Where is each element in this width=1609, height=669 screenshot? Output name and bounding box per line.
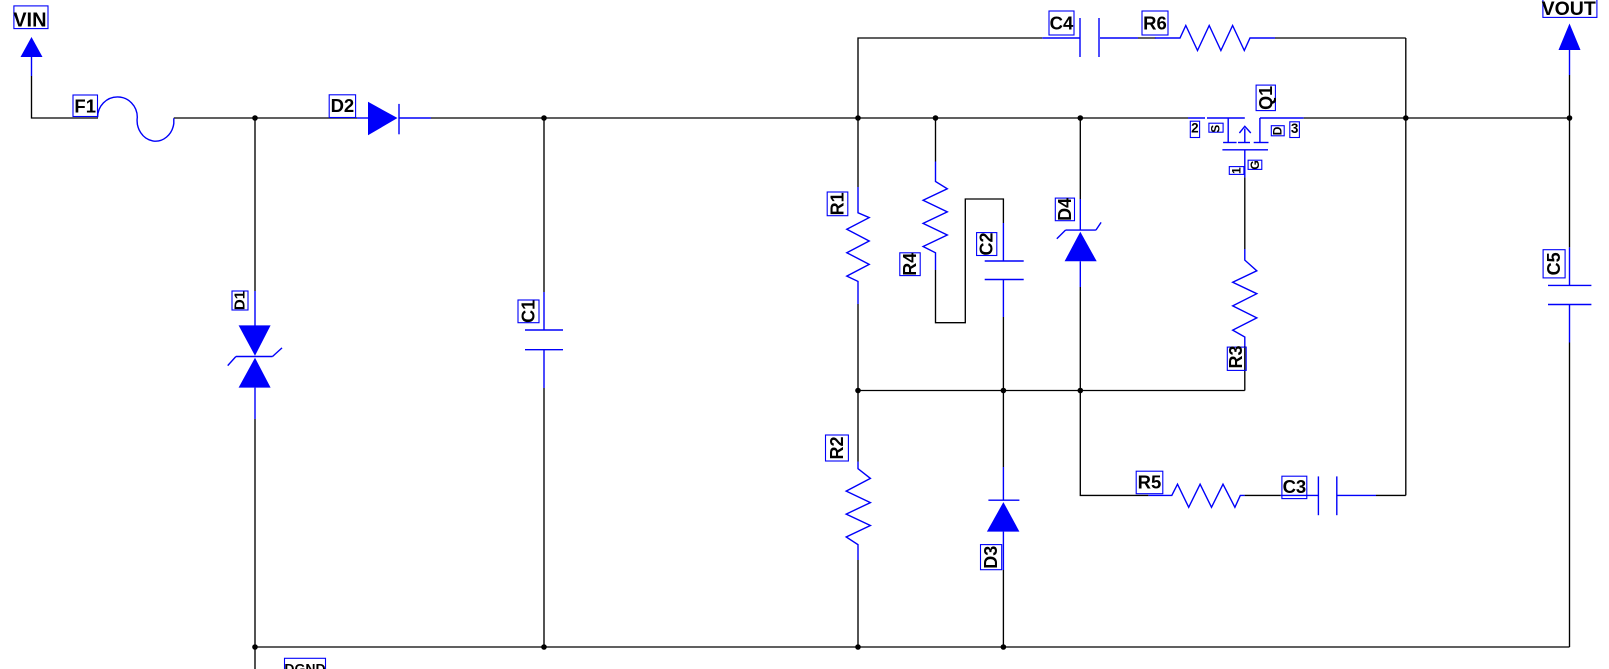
svg-text:D: D bbox=[1271, 126, 1285, 135]
junction node A top rail x255 bbox=[252, 115, 258, 121]
wire R4 route to C2 bbox=[936, 199, 1004, 323]
wire fuse to node A bbox=[174, 117, 255, 119]
junction bottom rail x255 bbox=[252, 644, 258, 650]
resistor R3 bbox=[1233, 249, 1257, 346]
capacitor C4 bbox=[1042, 18, 1138, 57]
wire node A to D2 anode bbox=[255, 117, 357, 119]
wire Q1 gate to R3 bbox=[1244, 177, 1246, 249]
svg-text:F1: F1 bbox=[74, 95, 96, 116]
fuse F1 bbox=[98, 97, 174, 141]
wire R5 to C3 bbox=[1245, 494, 1281, 496]
wire VOUT stub down through rail to C5 bbox=[1569, 75, 1571, 247]
capacitor C3 bbox=[1281, 476, 1376, 515]
svg-text:1: 1 bbox=[1230, 167, 1244, 174]
svg-text:C5: C5 bbox=[1544, 252, 1564, 275]
label R4 (rotated) bbox=[900, 253, 920, 276]
wire C4 to R6 bbox=[1138, 37, 1156, 39]
label F1 bbox=[73, 95, 98, 117]
label D1 (rotated) bbox=[232, 291, 249, 310]
wire top rail to D4 bbox=[1079, 118, 1081, 199]
pin number 3 (Q1 drain) bbox=[1290, 121, 1300, 138]
svg-text:D2: D2 bbox=[331, 95, 355, 116]
resistor R2 bbox=[846, 462, 870, 561]
power flag VIN arrow bbox=[21, 37, 43, 76]
zener diode D4 bbox=[1057, 199, 1101, 287]
junction mid rail x1080 bbox=[1078, 388, 1084, 394]
wire top rail up to C4 bbox=[858, 38, 1042, 118]
junction top rail x935 bbox=[933, 115, 939, 121]
wire R3 to mid rail bbox=[1244, 346, 1246, 391]
wire bottom rail bbox=[255, 646, 1570, 648]
junction top rail x1406 bbox=[1403, 115, 1409, 121]
capacitor C5 bbox=[1548, 247, 1591, 342]
junction bottom rail x858 bbox=[855, 644, 861, 650]
svg-text:D1: D1 bbox=[232, 291, 249, 310]
wire mid rail to D3 bbox=[1002, 391, 1004, 468]
junction mid rail x1003 bbox=[1001, 388, 1007, 394]
wire mid rail down and right to R5 bbox=[1080, 391, 1148, 496]
wire VIN stub to fuse bbox=[32, 76, 99, 118]
wire D1 to bottom rail bbox=[254, 419, 256, 647]
capacitor C2 bbox=[985, 223, 1024, 317]
svg-text:Q1: Q1 bbox=[1256, 86, 1276, 110]
pin name S (Q1, rotated) bbox=[1209, 123, 1223, 133]
label R6 bbox=[1142, 11, 1168, 35]
wire right vertical (C4/R6 to R5/C3 and rail) bbox=[1405, 38, 1407, 495]
svg-text:C2: C2 bbox=[977, 232, 997, 255]
label D2 bbox=[329, 95, 355, 118]
junction top rail x858 bbox=[855, 115, 861, 121]
junction bottom rail x1003 bbox=[1001, 644, 1007, 650]
svg-text:2: 2 bbox=[1191, 120, 1199, 135]
label C4 bbox=[1049, 11, 1074, 35]
junction top rail x544 bbox=[541, 115, 547, 121]
svg-text:R5: R5 bbox=[1138, 471, 1162, 492]
wire C1 to bottom rail bbox=[543, 388, 545, 647]
capacitor C1 bbox=[525, 292, 563, 388]
wire D2 cathode to Q1 source bbox=[431, 117, 1188, 119]
svg-text:R3: R3 bbox=[1226, 345, 1246, 368]
pin number 2 (Q1 source) bbox=[1190, 120, 1199, 137]
wire top rail to C1 bbox=[543, 118, 545, 292]
wire top rail to R1 bbox=[857, 118, 859, 187]
wire D4 to mid rail bbox=[1079, 287, 1081, 391]
wire D3 to bottom rail bbox=[1002, 570, 1004, 647]
junction bottom rail x544 bbox=[541, 644, 547, 650]
pin number 1 (Q1 gate, rotated) bbox=[1229, 167, 1244, 175]
label R1 (rotated) bbox=[827, 192, 848, 216]
diode D3 bbox=[987, 467, 1020, 570]
svg-text:DGND: DGND bbox=[284, 660, 325, 669]
label D3 (rotated) bbox=[981, 545, 1002, 570]
wire R2 to bottom rail bbox=[857, 560, 859, 647]
wire R1 to mid rail bbox=[857, 304, 859, 391]
resistor R5 bbox=[1148, 484, 1244, 507]
svg-text:R4: R4 bbox=[900, 253, 920, 276]
label C5 (rotated) bbox=[1543, 250, 1565, 278]
resistor R6 bbox=[1155, 26, 1275, 51]
svg-text:D4: D4 bbox=[1055, 198, 1075, 221]
resistor R1 bbox=[847, 187, 869, 304]
svg-text:C3: C3 bbox=[1283, 476, 1307, 497]
svg-text:G: G bbox=[1248, 160, 1262, 169]
wire C3 to right vertical bbox=[1376, 494, 1406, 496]
wire mid rail to R2 bbox=[857, 391, 859, 462]
label C1 (rotated) bbox=[518, 300, 539, 323]
mosfet Q1 bbox=[1188, 118, 1304, 177]
label R5 bbox=[1136, 471, 1163, 494]
svg-text:3: 3 bbox=[1291, 121, 1299, 136]
junction mid rail x858 bbox=[855, 388, 861, 394]
pin name D (Q1, rotated) bbox=[1271, 126, 1285, 136]
label C2 (rotated) bbox=[977, 232, 997, 255]
svg-text:VIN: VIN bbox=[13, 10, 46, 32]
wire DGND stub bbox=[254, 647, 256, 669]
svg-text:VOUT: VOUT bbox=[1542, 0, 1596, 20]
label DGND bbox=[284, 658, 325, 669]
label R3 (rotated) bbox=[1226, 345, 1246, 370]
wire node A down to D1 bbox=[254, 118, 256, 291]
svg-text:R6: R6 bbox=[1143, 13, 1167, 34]
wire Q1 drain to VOUT node bbox=[1304, 117, 1570, 119]
svg-text:R2: R2 bbox=[827, 436, 847, 459]
junction top rail x1080 bbox=[1078, 115, 1084, 121]
junction top rail x1569 VOUT node bbox=[1567, 115, 1573, 121]
resistor R4 bbox=[923, 162, 947, 271]
TVS diode D1 bbox=[228, 291, 282, 419]
label C3 bbox=[1282, 476, 1307, 498]
wire C2 to mid rail bbox=[1002, 317, 1004, 391]
svg-text:C1: C1 bbox=[519, 300, 539, 323]
label Q1 (rotated) bbox=[1256, 85, 1276, 111]
power flag VOUT arrow bbox=[1559, 24, 1581, 76]
svg-text:C4: C4 bbox=[1050, 13, 1074, 34]
label D4 (rotated) bbox=[1055, 198, 1075, 221]
svg-text:S: S bbox=[1209, 125, 1223, 133]
wire mid rail bbox=[858, 390, 1245, 392]
wire C5 to bottom rail bbox=[1569, 343, 1571, 648]
wire top rail to R4 bbox=[935, 118, 937, 162]
label VOUT bbox=[1542, 0, 1597, 20]
label VIN bbox=[13, 6, 48, 32]
wire R6 to right vertical bbox=[1275, 37, 1406, 39]
svg-text:D3: D3 bbox=[981, 546, 1001, 569]
pin name G (Q1, rotated) bbox=[1248, 160, 1262, 169]
label R2 (rotated) bbox=[826, 435, 849, 461]
svg-text:R1: R1 bbox=[828, 192, 848, 215]
diode D2 bbox=[357, 102, 431, 136]
